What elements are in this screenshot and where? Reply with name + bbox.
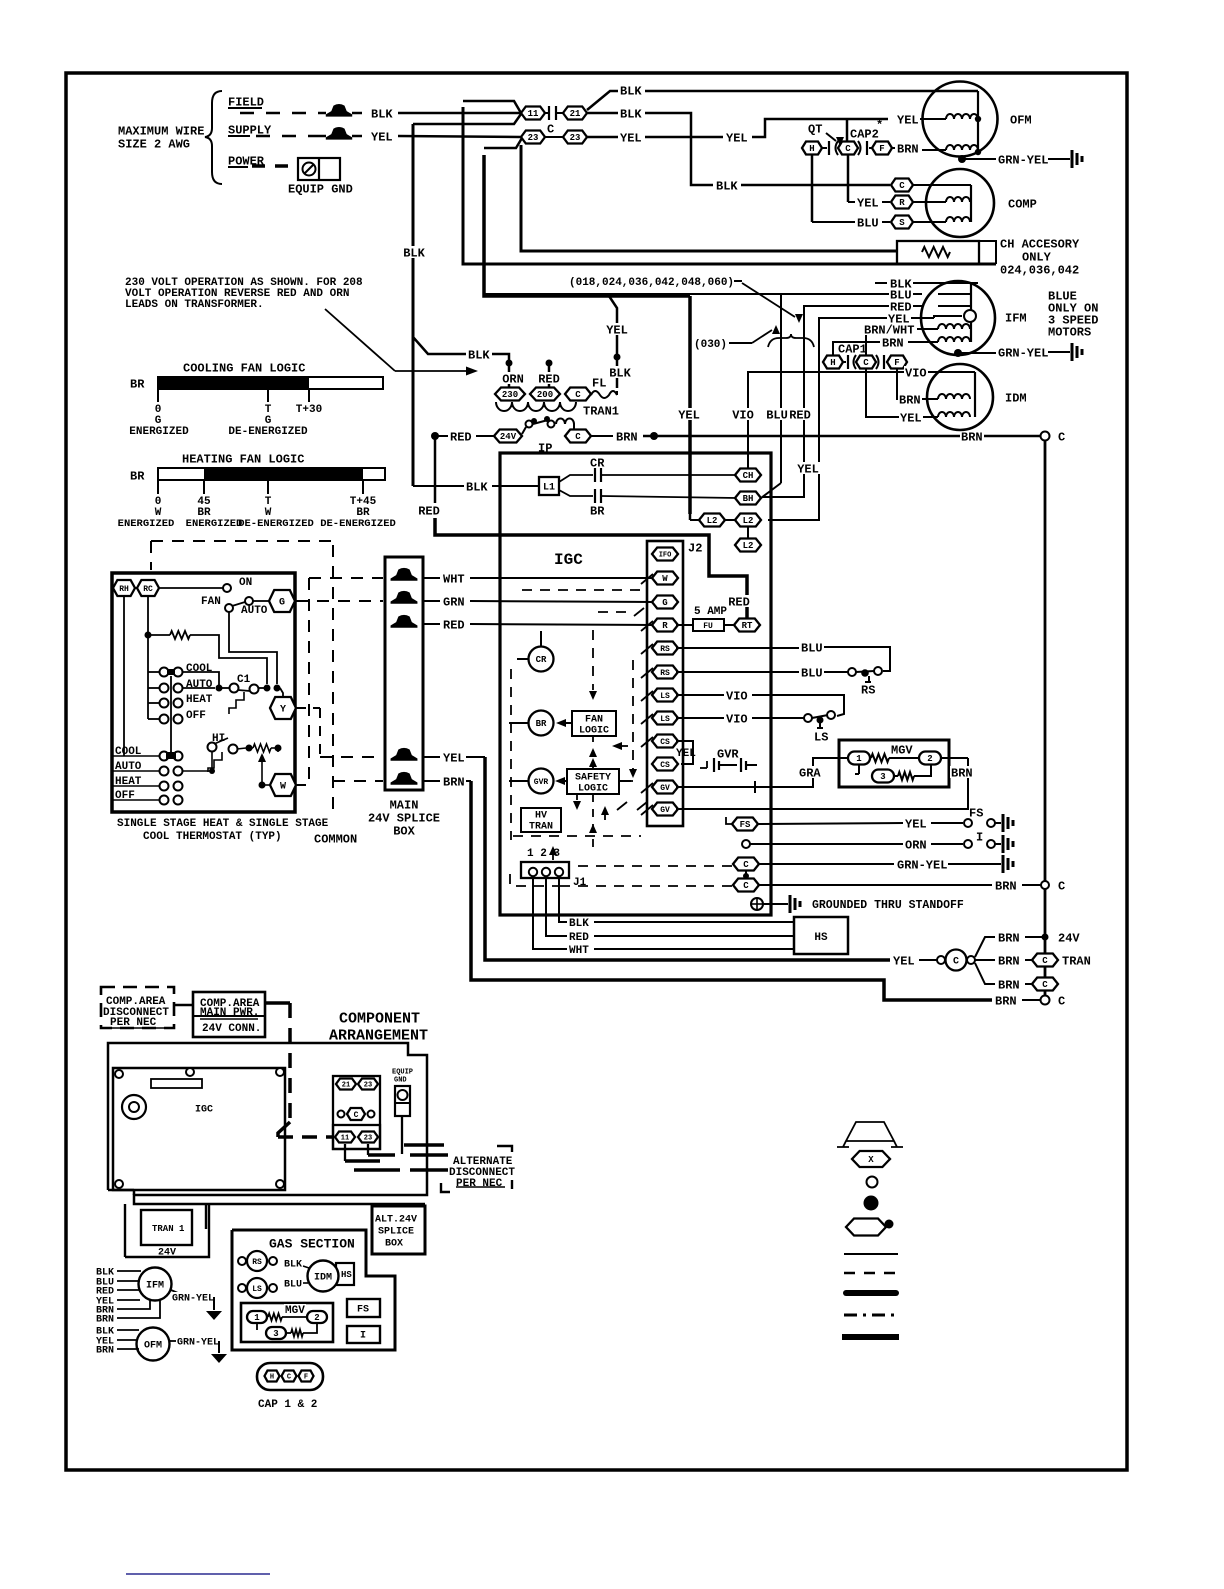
svg-text:YEL: YEL	[797, 462, 819, 476]
svg-text:GRN-YEL: GRN-YEL	[177, 1338, 219, 1349]
svg-text:5 AMP: 5 AMP	[694, 606, 727, 618]
svg-text:C: C	[845, 144, 851, 154]
connector J1	[521, 848, 587, 889]
svg-text:3: 3	[273, 1329, 278, 1339]
svg-text:IFO: IFO	[659, 552, 672, 560]
svg-text:BLU: BLU	[801, 641, 823, 655]
terminal C row3	[578, 858, 759, 871]
svg-text:AUTO: AUTO	[186, 679, 213, 691]
svg-text:W: W	[662, 574, 668, 584]
svg-text:C: C	[743, 860, 749, 870]
svg-text:BLK: BLK	[890, 277, 912, 291]
svg-text:ORN: ORN	[905, 838, 927, 852]
terminal RS J2	[652, 666, 678, 679]
dashed box thermostat top	[151, 541, 333, 570]
svg-text:BLK: BLK	[620, 107, 642, 121]
svg-text:BR: BR	[130, 469, 145, 483]
arrow fan logic to BR	[556, 719, 572, 727]
chart heating fan logic	[118, 452, 396, 530]
motor IFM	[921, 281, 995, 357]
wire fan auto down	[229, 612, 277, 684]
svg-text:BLK: BLK	[620, 84, 642, 98]
svg-text:RED: RED	[538, 372, 560, 386]
wire nut splice 5	[391, 772, 418, 785]
svg-text:GVR: GVR	[534, 778, 549, 787]
svg-text:MGV: MGV	[285, 1305, 305, 1317]
label MAXIMUM WIRE SIZE 2 AWG	[118, 124, 204, 151]
svg-text:COOL: COOL	[186, 663, 213, 675]
wire branch to FL	[605, 296, 632, 388]
wire BLU RS1	[676, 641, 890, 671]
box SAFETY LOGIC	[567, 769, 619, 795]
svg-text:BRN: BRN	[951, 766, 973, 780]
svg-text:BR: BR	[536, 719, 547, 729]
svg-text:YEL: YEL	[900, 411, 922, 425]
wire nut splice 3	[391, 615, 418, 628]
svg-text:FAN: FAN	[585, 715, 603, 726]
unit outline	[108, 1043, 427, 1204]
wire BLK branch to transformer 230	[413, 337, 525, 388]
svg-text:BLK: BLK	[716, 179, 738, 193]
gas section drop wire	[205, 1204, 207, 1229]
terminal W J2	[652, 572, 678, 585]
svg-text:200: 200	[537, 390, 553, 400]
terminal 23 right	[563, 131, 587, 144]
svg-text:R: R	[662, 621, 668, 631]
wire YEL supply to terminal 23	[398, 136, 521, 137]
svg-text:C: C	[953, 957, 959, 968]
wire to CH accessory top	[521, 145, 897, 251]
wire BRN bus to C right	[591, 430, 1041, 444]
wire nut splice 1	[391, 568, 418, 581]
wire RC down	[145, 596, 152, 719]
IDM arrangement	[284, 1260, 354, 1292]
svg-text:X: X	[868, 1155, 874, 1165]
svg-text:J1: J1	[573, 877, 587, 889]
svg-text:QT: QT	[808, 122, 822, 136]
terminal R COMP	[891, 196, 946, 209]
svg-text:CR: CR	[590, 456, 605, 470]
terminal R J2	[652, 619, 678, 632]
connector J2 strip	[647, 541, 702, 826]
svg-text:H: H	[830, 358, 835, 368]
svg-text:ONLY: ONLY	[1022, 250, 1052, 264]
wire 23-23	[545, 136, 563, 138]
svg-text:BRN: BRN	[882, 336, 904, 350]
svg-text:S: S	[899, 218, 905, 228]
IFM arrangement	[96, 1268, 222, 1326]
capacitor CAP2 terminals H C F	[802, 141, 892, 155]
note 230 volt operation	[125, 277, 363, 311]
svg-text:BRN: BRN	[998, 931, 1020, 945]
heavy dashed power lead	[265, 1003, 333, 1137]
svg-text:SIZE 2 AWG: SIZE 2 AWG	[118, 137, 190, 151]
terminal FS	[726, 817, 758, 831]
wire long line under CH box	[463, 107, 996, 264]
legend heavy bar	[842, 1334, 899, 1340]
svg-text:BRN: BRN	[998, 978, 1020, 992]
dashed WHT row	[309, 577, 383, 579]
dashed logic box	[511, 660, 641, 840]
svg-text:YEL: YEL	[676, 748, 696, 760]
label BLUE ONLY ON 3 SPEED MOTORS	[1048, 289, 1098, 339]
svg-text:C: C	[575, 432, 581, 442]
svg-text:YEL: YEL	[726, 131, 748, 145]
svg-text:RED: RED	[789, 408, 811, 422]
label GRN	[423, 595, 465, 609]
wire BLK stub IFM	[875, 277, 978, 291]
svg-text:C: C	[1058, 994, 1065, 1008]
capacitor gap between 11 and 21	[545, 106, 563, 120]
wire nut splice 2	[391, 591, 418, 604]
svg-text:C: C	[575, 390, 581, 400]
svg-text:24V SPLICE: 24V SPLICE	[368, 811, 440, 825]
terminal GV J2	[652, 781, 678, 794]
relay coil L1	[539, 477, 559, 495]
svg-text:GRN: GRN	[443, 595, 465, 609]
svg-text:IGC: IGC	[195, 1105, 213, 1116]
svg-text:BRN: BRN	[961, 430, 983, 444]
svg-text:MAIN: MAIN	[390, 798, 419, 812]
terminal C COMP	[891, 179, 971, 192]
label COMP	[1008, 197, 1037, 211]
svg-text:COOLING FAN LOGIC: COOLING FAN LOGIC	[183, 361, 305, 375]
capacitor CR	[559, 456, 737, 482]
label (018,024,036,042,048,060)	[569, 277, 803, 323]
terminal G	[269, 590, 295, 612]
svg-text:C: C	[1042, 980, 1048, 990]
switch C1	[222, 674, 281, 714]
svg-text:G: G	[662, 598, 667, 608]
svg-text:RC: RC	[143, 585, 153, 594]
wire RED to IFM and BH	[762, 300, 922, 497]
svg-text:OFM: OFM	[1010, 113, 1032, 127]
IGC enclosure box	[500, 453, 771, 915]
svg-text:L2: L2	[743, 541, 754, 551]
svg-text:YEL: YEL	[678, 408, 700, 422]
terminal RT	[734, 619, 760, 632]
svg-text:DE-ENERGIZED: DE-ENERGIZED	[238, 518, 314, 530]
wire BRN to TRAN	[975, 954, 1091, 969]
equip gnd block	[392, 1069, 413, 1155]
svg-text:YEL: YEL	[897, 113, 919, 127]
dashed Y route	[297, 708, 383, 757]
terminal L2 pair	[690, 514, 761, 527]
svg-text:1: 1	[856, 754, 862, 764]
wire BRN to 24V	[975, 931, 1080, 957]
svg-text:SPLICE: SPLICE	[378, 1227, 414, 1238]
svg-text:W: W	[280, 782, 286, 793]
wire power dashes	[252, 164, 296, 168]
svg-text:BLK: BLK	[609, 366, 631, 380]
svg-text:RS: RS	[660, 669, 670, 678]
wire BLK 21 top to OFM	[587, 84, 978, 110]
svg-text:FU: FU	[703, 622, 713, 631]
selector lower	[112, 746, 183, 805]
svg-text:LS: LS	[814, 730, 828, 744]
wire BLK down to L1	[402, 124, 426, 486]
svg-text:FS: FS	[357, 1305, 369, 1316]
wire BRN common to bus	[759, 879, 1065, 893]
svg-text:COMPONENT: COMPONENT	[339, 1010, 420, 1027]
box main 24V splice	[385, 557, 423, 790]
box I	[347, 1326, 380, 1343]
svg-text:BOX: BOX	[385, 1239, 403, 1250]
svg-text:C: C	[354, 1111, 359, 1120]
svg-text:R: R	[899, 198, 905, 208]
svg-text:*: *	[876, 118, 883, 132]
relay CR	[517, 631, 554, 672]
IGC board	[113, 1068, 285, 1190]
terminal L2 bottom	[735, 527, 761, 552]
svg-text:OFF: OFF	[186, 710, 206, 722]
svg-text:RH: RH	[119, 585, 129, 594]
svg-text:23: 23	[570, 133, 581, 143]
svg-text:BRN: BRN	[96, 1346, 114, 1357]
svg-text:C: C	[1058, 430, 1065, 444]
svg-text:RS: RS	[660, 645, 670, 654]
svg-text:CAP 1 & 2: CAP 1 & 2	[258, 1399, 317, 1411]
svg-text:C: C	[899, 181, 905, 191]
svg-text:MAIN PWR.: MAIN PWR.	[200, 1007, 259, 1019]
svg-text:BRN: BRN	[995, 994, 1017, 1008]
border frame	[66, 73, 1127, 1470]
svg-text:C: C	[1058, 879, 1065, 893]
svg-text:L1: L1	[543, 483, 555, 494]
terminal Y	[270, 688, 296, 719]
motor COMP	[926, 169, 994, 237]
svg-text:11: 11	[341, 1135, 349, 1143]
wire nut splice 4	[391, 748, 418, 761]
svg-text:GRN-YEL: GRN-YEL	[172, 1294, 214, 1305]
svg-text:TRAN: TRAN	[529, 822, 553, 833]
box FS	[347, 1299, 380, 1317]
chart cooling fan logic	[129, 361, 383, 438]
svg-text:24V: 24V	[1058, 931, 1080, 945]
svg-text:HV: HV	[535, 811, 547, 822]
svg-text:BR: BR	[590, 504, 605, 518]
brace	[205, 91, 222, 184]
plug C	[937, 950, 975, 971]
label single stage	[117, 818, 329, 843]
dashed G row	[296, 600, 383, 602]
svg-text:C: C	[287, 1374, 291, 1382]
svg-text:BR: BR	[130, 377, 145, 391]
terminal block	[333, 1076, 380, 1149]
legend filled circle	[864, 1196, 879, 1211]
svg-text:COMMON: COMMON	[314, 832, 357, 846]
legend dash dot line	[844, 1314, 898, 1317]
wire BRN to C hex	[975, 963, 1058, 992]
box alternate disconnect	[441, 1146, 515, 1192]
wire YEL capC to IDM	[866, 369, 938, 425]
svg-text:WHT: WHT	[569, 945, 589, 957]
motor OFM	[923, 82, 998, 157]
svg-text:GV: GV	[660, 806, 670, 815]
wire YEL to IFM and L2	[768, 312, 962, 520]
svg-text:ALT.24V: ALT.24V	[375, 1215, 417, 1226]
wire BLK field to terminal 11	[398, 112, 521, 115]
svg-text:RED: RED	[418, 504, 440, 518]
terminal BH	[735, 492, 761, 505]
dashed common vertical	[332, 545, 334, 814]
limit switch LS	[238, 1278, 277, 1298]
dashed route inside IGC top	[522, 590, 644, 616]
svg-text:F: F	[304, 1374, 308, 1382]
svg-text:H: H	[809, 144, 814, 154]
svg-text:F: F	[879, 144, 884, 154]
svg-text:VIO: VIO	[726, 689, 748, 703]
relay BR	[509, 711, 554, 736]
svg-text:YEL: YEL	[893, 954, 915, 968]
svg-text:BLK: BLK	[468, 348, 490, 362]
terminal W	[270, 774, 296, 796]
svg-text:24V: 24V	[158, 1248, 176, 1259]
svg-text:ON: ON	[239, 577, 252, 589]
sensor HS	[794, 917, 848, 954]
arrow wiper W	[258, 753, 269, 789]
wire YEL 23 down to splitter	[484, 155, 690, 296]
svg-text:L2: L2	[707, 516, 718, 526]
svg-text:FAN: FAN	[201, 596, 221, 608]
switch LS	[804, 711, 835, 744]
svg-text:RT: RT	[742, 621, 753, 631]
svg-text:ORN: ORN	[502, 372, 524, 386]
svg-text:FS: FS	[969, 806, 983, 820]
svg-text:CS: CS	[660, 738, 670, 747]
svg-text:3: 3	[880, 772, 885, 782]
wire WHT J1 to HS	[533, 878, 794, 957]
svg-text:RED: RED	[569, 932, 589, 944]
svg-text:OFM: OFM	[144, 1341, 162, 1352]
terminal 24V	[494, 430, 522, 443]
svg-text:SAFETY: SAFETY	[575, 773, 611, 784]
wire cool to auto bridge	[183, 672, 223, 692]
svg-text:Y: Y	[280, 705, 286, 716]
terminal RH	[113, 580, 135, 596]
svg-text:FS: FS	[740, 820, 751, 830]
OFM arrangement	[96, 1327, 227, 1363]
alternate disconnect dashes	[354, 1145, 448, 1170]
terminal LS J2	[652, 689, 678, 702]
valve MGV	[839, 740, 949, 787]
svg-text:GROUNDED THRU STANDOFF: GROUNDED THRU STANDOFF	[812, 899, 964, 912]
svg-text:MAXIMUM WIRE: MAXIMUM WIRE	[118, 124, 204, 138]
svg-text:CS: CS	[660, 761, 670, 770]
label COMPONENT ARRANGEMENT	[329, 1010, 428, 1044]
svg-text:RS: RS	[861, 683, 875, 697]
svg-text:BLK: BLK	[284, 1260, 302, 1271]
node bracket into terminal 11	[413, 101, 521, 124]
svg-text:HEATING FAN LOGIC: HEATING FAN LOGIC	[182, 452, 304, 466]
terminal LS J2	[652, 712, 678, 725]
dashed W row	[297, 784, 309, 786]
svg-text:C1: C1	[237, 674, 251, 686]
svg-text:(030): (030)	[694, 339, 727, 351]
ground OFM GRN-YEL	[958, 150, 1082, 168]
fuse FU 5 AMP	[676, 606, 736, 631]
wire BLU RS2	[676, 666, 848, 680]
svg-text:G: G	[279, 598, 285, 609]
wire RED from transformer to RT	[417, 436, 751, 618]
brace over motor leads	[768, 334, 814, 347]
svg-text:ENERGIZED: ENERGIZED	[118, 518, 175, 530]
terminal RS J2	[652, 642, 678, 655]
contact GVR	[700, 747, 757, 772]
box comp area main pwr	[193, 992, 265, 1037]
wire BLK J1 to HS	[559, 878, 794, 930]
label SUPPLY	[228, 123, 272, 137]
label FIELD	[228, 95, 264, 109]
node RED lead	[537, 360, 561, 389]
svg-text:BOX: BOX	[393, 824, 415, 838]
heater resistor row	[246, 744, 282, 752]
wire wiper down	[170, 676, 172, 752]
svg-text:VIO: VIO	[905, 366, 927, 380]
svg-text:FL: FL	[592, 376, 606, 390]
capacitor CAP1	[823, 342, 907, 369]
wire VIO LS2	[676, 712, 804, 726]
switch IP	[522, 416, 574, 455]
wire ORN igniter	[750, 830, 1013, 853]
terminal S COMP	[891, 216, 946, 229]
label CAP 1 & 2	[258, 1399, 317, 1411]
svg-text:CAP2: CAP2	[850, 127, 879, 141]
fuse link FL	[591, 376, 617, 398]
svg-text:F: F	[894, 358, 899, 368]
dashed BRN row	[333, 780, 383, 782]
svg-text:AUTO: AUTO	[241, 605, 268, 617]
terminal CH	[735, 469, 761, 482]
svg-text:23: 23	[364, 1135, 372, 1143]
legend open circle	[867, 1177, 878, 1188]
wire RED J1 to HS	[546, 878, 794, 944]
svg-text:LEADS ON TRANSFORMER.: LEADS ON TRANSFORMER.	[125, 299, 264, 311]
wire BLU motor lead	[483, 293, 485, 295]
wire RH down	[123, 596, 125, 756]
svg-text:1 2 3: 1 2 3	[527, 848, 560, 860]
wire auto to HI	[183, 752, 215, 774]
label MAIN 24V SPLICE BOX	[368, 798, 440, 838]
thermostat box	[112, 573, 295, 812]
wire BRN MGV to GV2	[676, 758, 974, 809]
switch RS	[848, 667, 882, 697]
svg-text:BLU: BLU	[857, 216, 879, 230]
svg-text:RED: RED	[728, 595, 750, 609]
svg-text:BLK: BLK	[466, 480, 488, 494]
svg-text:T+30: T+30	[296, 404, 322, 416]
svg-text:GAS SECTION: GAS SECTION	[269, 1237, 355, 1252]
svg-text:BRN: BRN	[998, 954, 1020, 968]
svg-text:BH: BH	[743, 494, 754, 504]
box FAN LOGIC	[572, 711, 616, 737]
legend quick connect	[852, 1151, 890, 1167]
svg-text:BRN/WHT: BRN/WHT	[864, 323, 914, 337]
switch ticks J2	[641, 574, 653, 815]
svg-text:(018,024,036,042,048,060): (018,024,036,042,048,060)	[569, 277, 734, 289]
wire GRN to G	[470, 601, 652, 602]
svg-text:I: I	[360, 1331, 366, 1342]
svg-text:2: 2	[927, 754, 932, 764]
svg-text:BRN: BRN	[897, 142, 919, 156]
wire BRN/WHT to IFM	[863, 323, 938, 355]
label YEL	[371, 130, 393, 144]
alt 24v splice box	[372, 1206, 425, 1254]
svg-text:RED: RED	[450, 430, 472, 444]
wire BRN capH to IFM	[833, 336, 938, 355]
legend dashed line	[844, 1272, 898, 1275]
svg-text:BLK: BLK	[569, 918, 589, 930]
